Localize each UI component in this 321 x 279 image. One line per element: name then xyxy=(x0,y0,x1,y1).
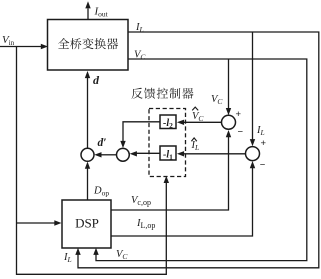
svg-text:DSP: DSP xyxy=(75,216,99,231)
svg-text:−: − xyxy=(260,160,266,171)
svg-text:d′: d′ xyxy=(98,137,107,149)
svg-text:−: − xyxy=(238,127,244,138)
svg-text:+: + xyxy=(236,109,242,120)
svg-text:d: d xyxy=(93,73,100,87)
svg-text:+: + xyxy=(261,138,267,149)
